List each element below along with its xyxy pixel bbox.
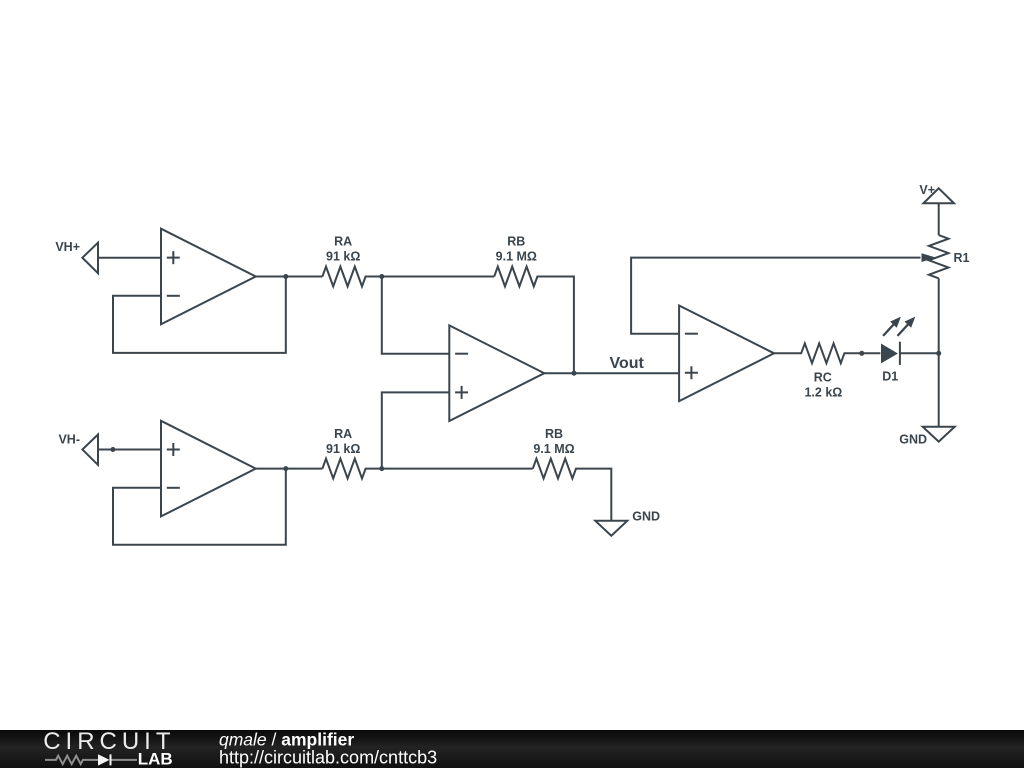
svg-text:http://circuitlab.com/cnttcb3: http://circuitlab.com/cnttcb3 — [219, 748, 437, 768]
svg-text:R1: R1 — [954, 251, 970, 265]
svg-text:GND: GND — [899, 432, 927, 446]
svg-text:RB: RB — [507, 235, 525, 249]
svg-text:9.1 MΩ: 9.1 MΩ — [496, 250, 537, 264]
svg-text:LAB: LAB — [138, 750, 173, 768]
svg-text:RA: RA — [334, 235, 352, 249]
svg-text:Vout: Vout — [610, 355, 645, 372]
svg-text:RB: RB — [545, 427, 563, 441]
svg-text:VH-: VH- — [58, 432, 80, 446]
svg-text:91 kΩ: 91 kΩ — [326, 250, 360, 264]
svg-text:V+: V+ — [919, 183, 935, 197]
svg-text:1.2 kΩ: 1.2 kΩ — [804, 386, 842, 400]
svg-text:RA: RA — [334, 427, 352, 441]
svg-text:GND: GND — [632, 510, 660, 524]
svg-text:D1: D1 — [882, 370, 898, 384]
svg-text:qmale / amplifier: qmale / amplifier — [219, 730, 354, 749]
svg-text:VH+: VH+ — [55, 240, 80, 254]
svg-text:RC: RC — [814, 371, 832, 385]
svg-text:9.1 MΩ: 9.1 MΩ — [533, 442, 574, 456]
svg-text:91 kΩ: 91 kΩ — [326, 442, 360, 456]
